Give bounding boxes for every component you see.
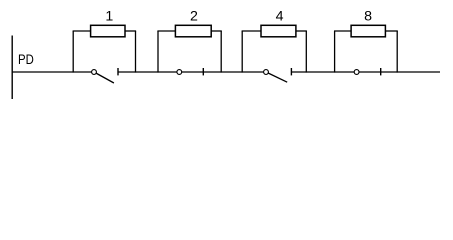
- node PD input rail: [11, 36, 13, 100]
- resistor R2 branch: left leg wire: [157, 31, 159, 73]
- wire top right of R1: [125, 30, 136, 32]
- resistor R1 (value 1): [91, 25, 125, 37]
- switch S4 pivot circle (closed): [354, 70, 359, 75]
- resistor R1 branch: right leg wire: [135, 31, 137, 73]
- wire top right of R3: [296, 30, 307, 32]
- label value 8: [364, 9, 372, 25]
- label PD: [18, 51, 34, 67]
- label value 2: [190, 9, 198, 25]
- wire top left of R3: [242, 30, 261, 32]
- svg-text:2: 2: [190, 9, 198, 25]
- wire main horizontal segment from S1 contact to switch S3: [118, 71, 266, 73]
- resistor R2 (value 2): [175, 25, 211, 37]
- switch S1 fixed contact tick: [117, 68, 119, 75]
- wire top right of R2: [211, 30, 222, 32]
- wire top left of R1: [73, 30, 91, 32]
- switch S2 pivot circle (closed): [177, 70, 182, 75]
- switch S2 fixed contact tick: [202, 68, 204, 75]
- svg-text:8: 8: [364, 9, 372, 25]
- resistor R4 branch: left leg wire: [334, 31, 336, 73]
- switch S1 (open) blade: [94, 72, 114, 83]
- wire top right of R4: [385, 30, 397, 32]
- switch S1 pivot circle: [92, 70, 97, 75]
- resistor R4 branch: right leg wire: [396, 31, 398, 73]
- svg-text:PD: PD: [18, 51, 34, 67]
- resistor R2 branch: right leg wire: [220, 31, 222, 73]
- wire top left of R2: [157, 30, 175, 32]
- resistor R1 branch: left leg wire: [72, 31, 74, 73]
- resistor R3 branch: left leg wire: [241, 31, 243, 73]
- svg-text:1: 1: [105, 9, 113, 25]
- switch S3 pivot circle: [264, 70, 269, 75]
- wire main horizontal segment from S3 contact to right end: [291, 71, 440, 73]
- wire main horizontal segment from PD rail to switch S1: [12, 71, 95, 73]
- svg-text:4: 4: [276, 9, 284, 25]
- switch S3 fixed contact tick: [290, 68, 292, 75]
- label value 1: [105, 9, 113, 25]
- resistor R3 branch: right leg wire: [305, 31, 307, 73]
- resistor R4 (value 8): [351, 25, 385, 37]
- switch S4 fixed contact tick: [380, 68, 382, 75]
- switch S3 (open) blade: [266, 72, 287, 82]
- wire top left of R4: [334, 30, 351, 32]
- label value 4: [276, 9, 284, 25]
- resistor R3 (value 4): [261, 25, 296, 37]
